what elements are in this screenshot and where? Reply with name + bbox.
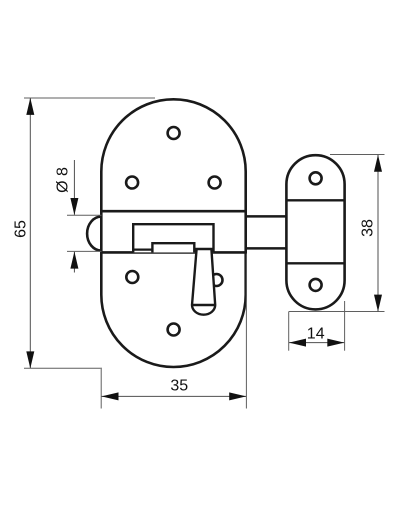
- extension line keeper top (38): [330, 154, 385, 156]
- arrow 38 bottom: [374, 295, 382, 312]
- keeper upper dividing line: [286, 199, 344, 201]
- step line left of inner rectangle: [133, 249, 152, 251]
- bolt guide inner rectangle: [152, 243, 194, 252]
- svg-text:38: 38: [359, 219, 376, 237]
- screw hole plate lower-left: [126, 271, 138, 283]
- screw hole keeper bottom: [310, 279, 322, 291]
- screw hole keeper top: [310, 172, 322, 184]
- keeper lower dividing line: [286, 262, 344, 264]
- main plate outline: [101, 99, 245, 367]
- svg-text:14: 14: [307, 325, 325, 342]
- dimension leader lower (diameter 8): [73, 252, 75, 273]
- extension line top of plate (65): [24, 97, 155, 99]
- handle cap line: [192, 304, 215, 306]
- bolt channel bottom line: [101, 251, 245, 254]
- extension line plate right (35): [245, 254, 247, 409]
- dimension leader upper (diameter 8): [73, 160, 75, 215]
- screw hole plate mid-left: [126, 177, 138, 189]
- keeper plate outline: [286, 155, 344, 309]
- dimension line 38: [377, 155, 379, 311]
- arrow 65 bottom: [26, 351, 34, 368]
- extension line bottom of plate (65): [24, 367, 102, 369]
- extension line plate left (35): [100, 369, 102, 409]
- bolt bar top line: [246, 215, 287, 218]
- screw hole plate mid-right: [209, 177, 221, 189]
- bolt housing rectangle: [133, 224, 213, 252]
- screw hole plate bottom: [168, 324, 180, 336]
- extension line keeper right (14): [344, 301, 346, 351]
- arrow diameter-8 upper: [70, 198, 78, 215]
- extension line bolt top (diameter 8): [67, 214, 102, 216]
- extension line keeper bottom (38): [289, 311, 385, 313]
- arrow 38 top: [374, 155, 382, 172]
- screw hole plate lower-right (behind handle): [211, 274, 223, 286]
- dimension line 65: [29, 98, 31, 368]
- bolt bar bottom line: [246, 247, 287, 250]
- extension line keeper left (14): [288, 312, 290, 351]
- extension line bolt bottom (diameter 8): [67, 250, 102, 252]
- arrow 65 top: [26, 98, 34, 115]
- dimension line 14: [289, 342, 344, 344]
- bolt round end (left bulge): [87, 217, 101, 251]
- arrow 35 left: [102, 392, 119, 400]
- arrow 35 right: [229, 392, 246, 400]
- svg-text:35: 35: [170, 378, 188, 395]
- svg-text:65: 65: [12, 220, 29, 238]
- arrow diameter-8 lower: [70, 252, 78, 269]
- svg-text:Ø 8: Ø 8: [54, 167, 71, 193]
- arrow 14 right: [327, 339, 344, 347]
- screw hole plate top: [168, 127, 180, 139]
- handle knob: [192, 249, 215, 315]
- bolt channel top line: [101, 210, 245, 213]
- arrow 14 left: [289, 339, 306, 347]
- dimension line 35: [102, 395, 247, 397]
